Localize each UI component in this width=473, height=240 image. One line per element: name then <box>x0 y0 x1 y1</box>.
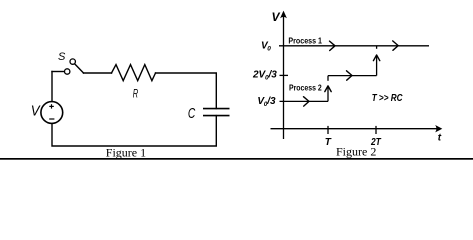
svg-text:T: T <box>325 137 332 148</box>
svg-text:0: 0 <box>267 46 271 53</box>
svg-text:V: V <box>272 10 281 24</box>
svg-text:R: R <box>133 86 139 100</box>
svg-text:Process 2: Process 2 <box>289 83 322 93</box>
svg-text:T >> RC: T >> RC <box>372 93 403 104</box>
svg-text:Figure 2: Figure 2 <box>336 145 376 159</box>
svg-text:C: C <box>188 106 196 122</box>
svg-text:/3: /3 <box>268 69 278 80</box>
svg-text:Figure 1: Figure 1 <box>106 146 146 160</box>
svg-text:S: S <box>58 51 66 63</box>
svg-text:Process 1: Process 1 <box>288 35 322 45</box>
svg-text:/3: /3 <box>266 96 276 107</box>
